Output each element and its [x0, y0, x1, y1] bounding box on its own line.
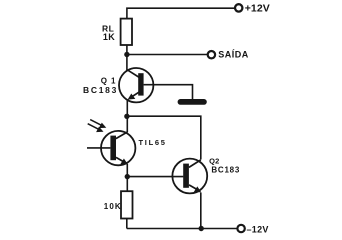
phototransistor TIL65 emitter arrowhead — [120, 159, 128, 165]
wire to Q2 base — [127, 176, 183, 178]
transistor Q1 emitter diagonal — [129, 92, 139, 99]
terminal SAIDA — [208, 51, 215, 58]
node junction lower — [125, 174, 130, 179]
node junction upper — [124, 114, 129, 119]
resistor R_L body — [121, 19, 132, 45]
wire to Q2 collector — [127, 116, 201, 159]
phototransistor TIL65 light arrow 2 — [88, 124, 100, 130]
phototransistor TIL65 circle — [101, 131, 135, 165]
svg-text:Q2: Q2 — [209, 157, 219, 166]
svg-text:1K: 1K — [103, 32, 115, 42]
wire Q1 collector — [126, 55, 128, 71]
svg-text:TIL65: TIL65 — [139, 138, 167, 147]
phototransistor TIL65 light arrow 1 — [90, 120, 103, 126]
svg-text:BC183: BC183 — [83, 85, 118, 95]
resistor 10K body — [121, 191, 133, 218]
phototransistor TIL65 collector diagonal — [116, 132, 128, 139]
svg-text:BC183: BC183 — [211, 166, 240, 175]
transistor Q2 emitter diagonal — [189, 185, 199, 191]
svg-text:+12V: +12V — [245, 2, 270, 14]
wire bottom rail — [127, 228, 237, 230]
wire +12V rail top — [127, 8, 234, 19]
wire Q1 emitter down rail — [126, 100, 128, 132]
terminal -12V — [237, 225, 244, 232]
transistor Q2 base bar — [183, 164, 189, 188]
node junction bottom — [199, 226, 204, 231]
ground bar — [178, 99, 207, 105]
phototransistor TIL65 base bar — [110, 136, 116, 161]
terminal +12V — [235, 4, 242, 11]
transistor Q1 circle — [119, 68, 153, 102]
transistor Q2 collector diagonal — [189, 160, 201, 168]
node junction below RL — [124, 52, 129, 57]
svg-text:Q 1: Q 1 — [101, 76, 117, 85]
wire Q1 base to ground — [144, 85, 193, 99]
svg-text:10K: 10K — [104, 202, 122, 211]
wire 10K bottom lead — [126, 219, 128, 229]
phototransistor TIL65 emitter diagonal — [116, 157, 125, 162]
wire resistor bottom lead — [126, 45, 128, 55]
svg-text:–12V: –12V — [247, 224, 269, 234]
transistor Q2 circle — [172, 159, 207, 194]
wire to SAIDA — [127, 54, 207, 56]
transistor Q2 emitter arrowhead — [194, 186, 202, 192]
transistor Q1 emitter arrowhead — [128, 94, 136, 100]
svg-text:SAÍDA: SAÍDA — [218, 50, 249, 60]
transistor Q1 collector diagonal — [127, 70, 139, 78]
wire Q2 emitter down — [200, 193, 202, 229]
wire rail below TIL65 — [126, 164, 128, 191]
phototransistor TIL65 base lead — [87, 147, 110, 149]
transistor Q1 base bar — [138, 73, 143, 95]
